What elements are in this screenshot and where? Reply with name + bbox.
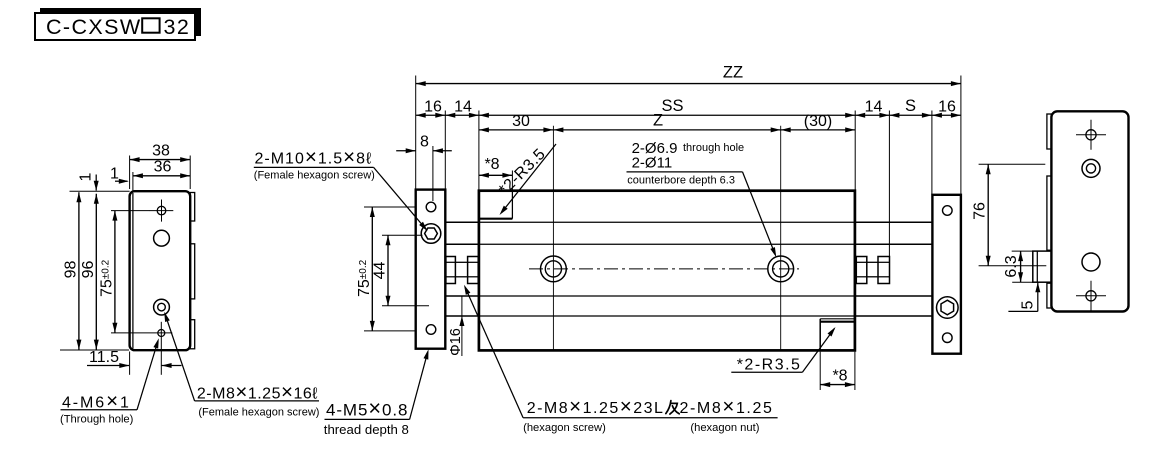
svg-text:1: 1 <box>78 172 95 181</box>
svg-text:1: 1 <box>110 166 119 183</box>
svg-text:8: 8 <box>420 133 429 150</box>
svg-text:6.3: 6.3 <box>1003 255 1020 277</box>
svg-text:16: 16 <box>424 98 442 115</box>
svg-text:2-Ø11: 2-Ø11 <box>632 154 673 171</box>
svg-text:*8: *8 <box>832 367 847 384</box>
svg-text:96: 96 <box>80 261 97 279</box>
svg-text:14: 14 <box>454 98 472 115</box>
svg-text:(hexagon nut): (hexagon nut) <box>690 422 759 434</box>
svg-text:Z: Z <box>653 111 663 129</box>
svg-text:30: 30 <box>512 113 530 130</box>
svg-text:32: 32 <box>164 15 191 39</box>
svg-text:36: 36 <box>154 159 172 176</box>
svg-text:*8: *8 <box>484 156 499 173</box>
svg-text:counterbore depth 6.3: counterbore depth 6.3 <box>627 174 735 186</box>
svg-text:ZZ: ZZ <box>723 64 743 82</box>
svg-text:thread depth 8: thread depth 8 <box>324 422 409 437</box>
svg-text:(Female hexagon screw): (Female hexagon screw) <box>198 407 319 419</box>
svg-text:76: 76 <box>972 202 989 220</box>
svg-text:16: 16 <box>938 98 956 115</box>
svg-text:Φ16: Φ16 <box>448 328 464 356</box>
svg-text:44: 44 <box>372 262 389 280</box>
svg-text:(hexagon screw): (hexagon screw) <box>523 422 606 434</box>
svg-text:98: 98 <box>63 261 80 279</box>
svg-text:*2-R3.5: *2-R3.5 <box>737 357 802 374</box>
svg-text:SS: SS <box>661 97 683 115</box>
svg-text:38: 38 <box>152 142 170 159</box>
svg-text:(Through hole): (Through hole) <box>60 414 134 426</box>
svg-text:5: 5 <box>1020 300 1037 309</box>
svg-text:(Female hexagon screw): (Female hexagon screw) <box>254 170 375 182</box>
svg-text:(30): (30) <box>804 113 832 130</box>
svg-text:through hole: through hole <box>683 142 744 154</box>
svg-text:S: S <box>905 97 916 115</box>
svg-text:11.5: 11.5 <box>89 349 119 366</box>
svg-text:C-CXSW: C-CXSW <box>46 15 142 39</box>
svg-text:14: 14 <box>865 98 883 115</box>
